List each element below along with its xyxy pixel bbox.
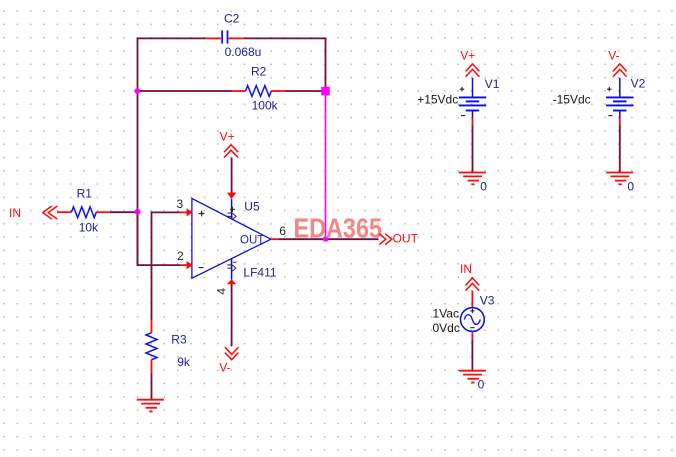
ground 0 under R3 — [137, 400, 164, 412]
junction square at R2/right rail — [321, 87, 330, 96]
junction dot at R1/left rail — [135, 209, 141, 215]
svg-text:U5: U5 — [244, 200, 260, 214]
wire: R1 output to junction — [110, 211, 138, 213]
power symbol IN at V3 — [466, 278, 480, 291]
svg-text:10k: 10k — [79, 221, 99, 235]
svg-text:R2: R2 — [251, 65, 267, 79]
wire: selected net from square to output row (magenta) — [325, 95, 327, 239]
voltage source V2 — [606, 78, 633, 126]
svg-text:V-: V- — [608, 49, 619, 63]
svg-text:EDA365: EDA365 — [294, 213, 383, 244]
wire: R3 bottom to ground — [151, 372, 153, 399]
svg-text:R1: R1 — [77, 187, 93, 201]
ac voltage source V3 — [461, 291, 485, 340]
svg-text:3: 3 — [177, 197, 184, 211]
svg-text:R3: R3 — [171, 333, 187, 347]
wire: V1 to ground — [472, 125, 474, 173]
op-amp output pin 6 stub — [271, 238, 278, 240]
off-page connector OUT (right) — [379, 234, 392, 245]
capacitor C2 — [205, 30, 244, 43]
wire: left feedback rail — [137, 38, 139, 266]
svg-text:6: 6 — [279, 224, 286, 238]
svg-text:0: 0 — [627, 180, 634, 194]
svg-text:V3: V3 — [480, 294, 495, 308]
svg-text:9k: 9k — [177, 355, 191, 369]
op-amp V+ pin marker glyphs — [228, 207, 236, 219]
power symbol V- at V2 — [613, 64, 627, 77]
svg-text:OUT: OUT — [240, 234, 264, 246]
svg-text:V1: V1 — [485, 77, 500, 91]
resistor R2 — [232, 86, 284, 97]
svg-text:-15Vdc: -15Vdc — [553, 93, 591, 107]
wire: op-amp output row — [278, 238, 378, 240]
op-amp non-inverting input marker + — [199, 211, 205, 217]
op-amp U5 triangle — [192, 198, 271, 278]
svg-text:0.068u: 0.068u — [225, 45, 262, 59]
svg-text:0: 0 — [478, 378, 485, 392]
wire: R2 row left segment — [137, 90, 232, 92]
svg-text:V+: V+ — [460, 48, 475, 62]
svg-text:0Vdc: 0Vdc — [433, 321, 460, 335]
junction dot at R2/left rail — [134, 88, 140, 94]
wire: V3 to ground — [471, 340, 473, 371]
voltage source V1 — [459, 78, 486, 126]
wire: op-amp pin 3 to R3 branch — [152, 212, 180, 320]
resistor R1 — [57, 207, 110, 218]
svg-text:4: 4 — [214, 288, 228, 295]
resistor R3 — [146, 320, 157, 372]
ground 0 under V2 — [606, 173, 633, 185]
off-page connector IN (left) — [43, 206, 58, 219]
svg-text:LF411: LF411 — [243, 265, 276, 279]
wire: V+ power stem above op-amp — [231, 158, 233, 193]
op-amp pin 3 stub — [180, 208, 193, 216]
power symbol V- below op-amp — [225, 347, 239, 360]
svg-text:V+: V+ — [220, 130, 235, 144]
svg-text:IN: IN — [9, 206, 21, 220]
ground 0 under V3 — [459, 371, 486, 383]
svg-text:C2: C2 — [224, 12, 240, 26]
op-amp V+ power pin (top) — [227, 193, 236, 219]
svg-text:V2: V2 — [631, 77, 646, 91]
wire: V2 to ground — [619, 125, 621, 173]
power symbol V+ at V1 — [466, 64, 480, 77]
svg-text:100k: 100k — [252, 99, 279, 113]
svg-text:1Vac: 1Vac — [433, 306, 459, 320]
svg-text:IN: IN — [460, 262, 472, 276]
svg-text:+15Vdc: +15Vdc — [417, 93, 458, 107]
wire: right rail upper (square to C2 row) — [325, 38, 327, 88]
svg-text:2: 2 — [177, 249, 184, 263]
op-amp pin 2 stub — [180, 261, 193, 269]
op-amp inverting input marker - — [199, 267, 204, 269]
op-amp V- pin marker glyphs — [227, 262, 236, 271]
wire: R2 row right segment — [285, 90, 322, 92]
op-amp V- power pin (bottom, pin 4) — [227, 259, 236, 284]
svg-text:OUT: OUT — [393, 231, 419, 245]
power symbol V+ above op-amp — [224, 145, 238, 158]
svg-text:V-: V- — [219, 360, 230, 374]
wire: top branch C2 left segment — [137, 37, 205, 39]
ground 0 under V1 — [459, 173, 486, 185]
wire: junction down and to op-amp pin 2 — [138, 212, 180, 266]
wire: top branch C2 right segment — [244, 37, 327, 39]
wire: V- power stem below op-amp — [231, 284, 233, 346]
svg-text:0: 0 — [480, 180, 487, 194]
junction small square at output — [323, 237, 328, 242]
